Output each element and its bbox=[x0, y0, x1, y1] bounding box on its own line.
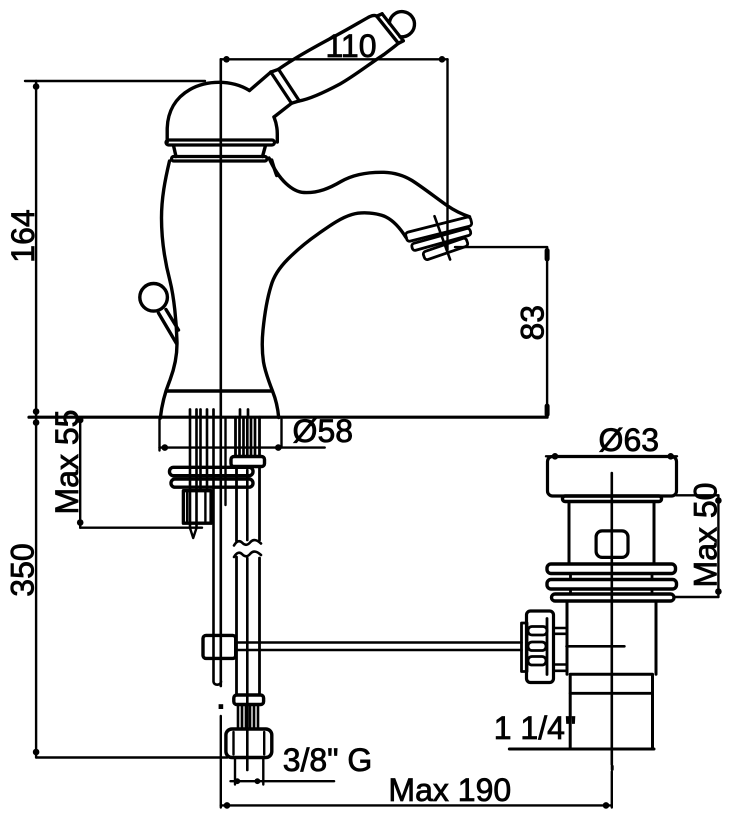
svg-text:Ø63: Ø63 bbox=[599, 422, 659, 458]
svg-text:110: 110 bbox=[325, 28, 376, 64]
svg-text:164: 164 bbox=[5, 209, 41, 262]
svg-text:350: 350 bbox=[5, 543, 41, 596]
svg-text:Max 50: Max 50 bbox=[688, 483, 724, 588]
svg-text:Max 190: Max 190 bbox=[388, 772, 511, 808]
svg-text:1 1/4": 1 1/4" bbox=[494, 710, 577, 746]
svg-text:83: 83 bbox=[515, 305, 551, 341]
svg-text:Ø58: Ø58 bbox=[293, 413, 353, 449]
svg-text:Max 55: Max 55 bbox=[49, 410, 85, 515]
svg-text:3/8" G: 3/8" G bbox=[283, 742, 373, 778]
